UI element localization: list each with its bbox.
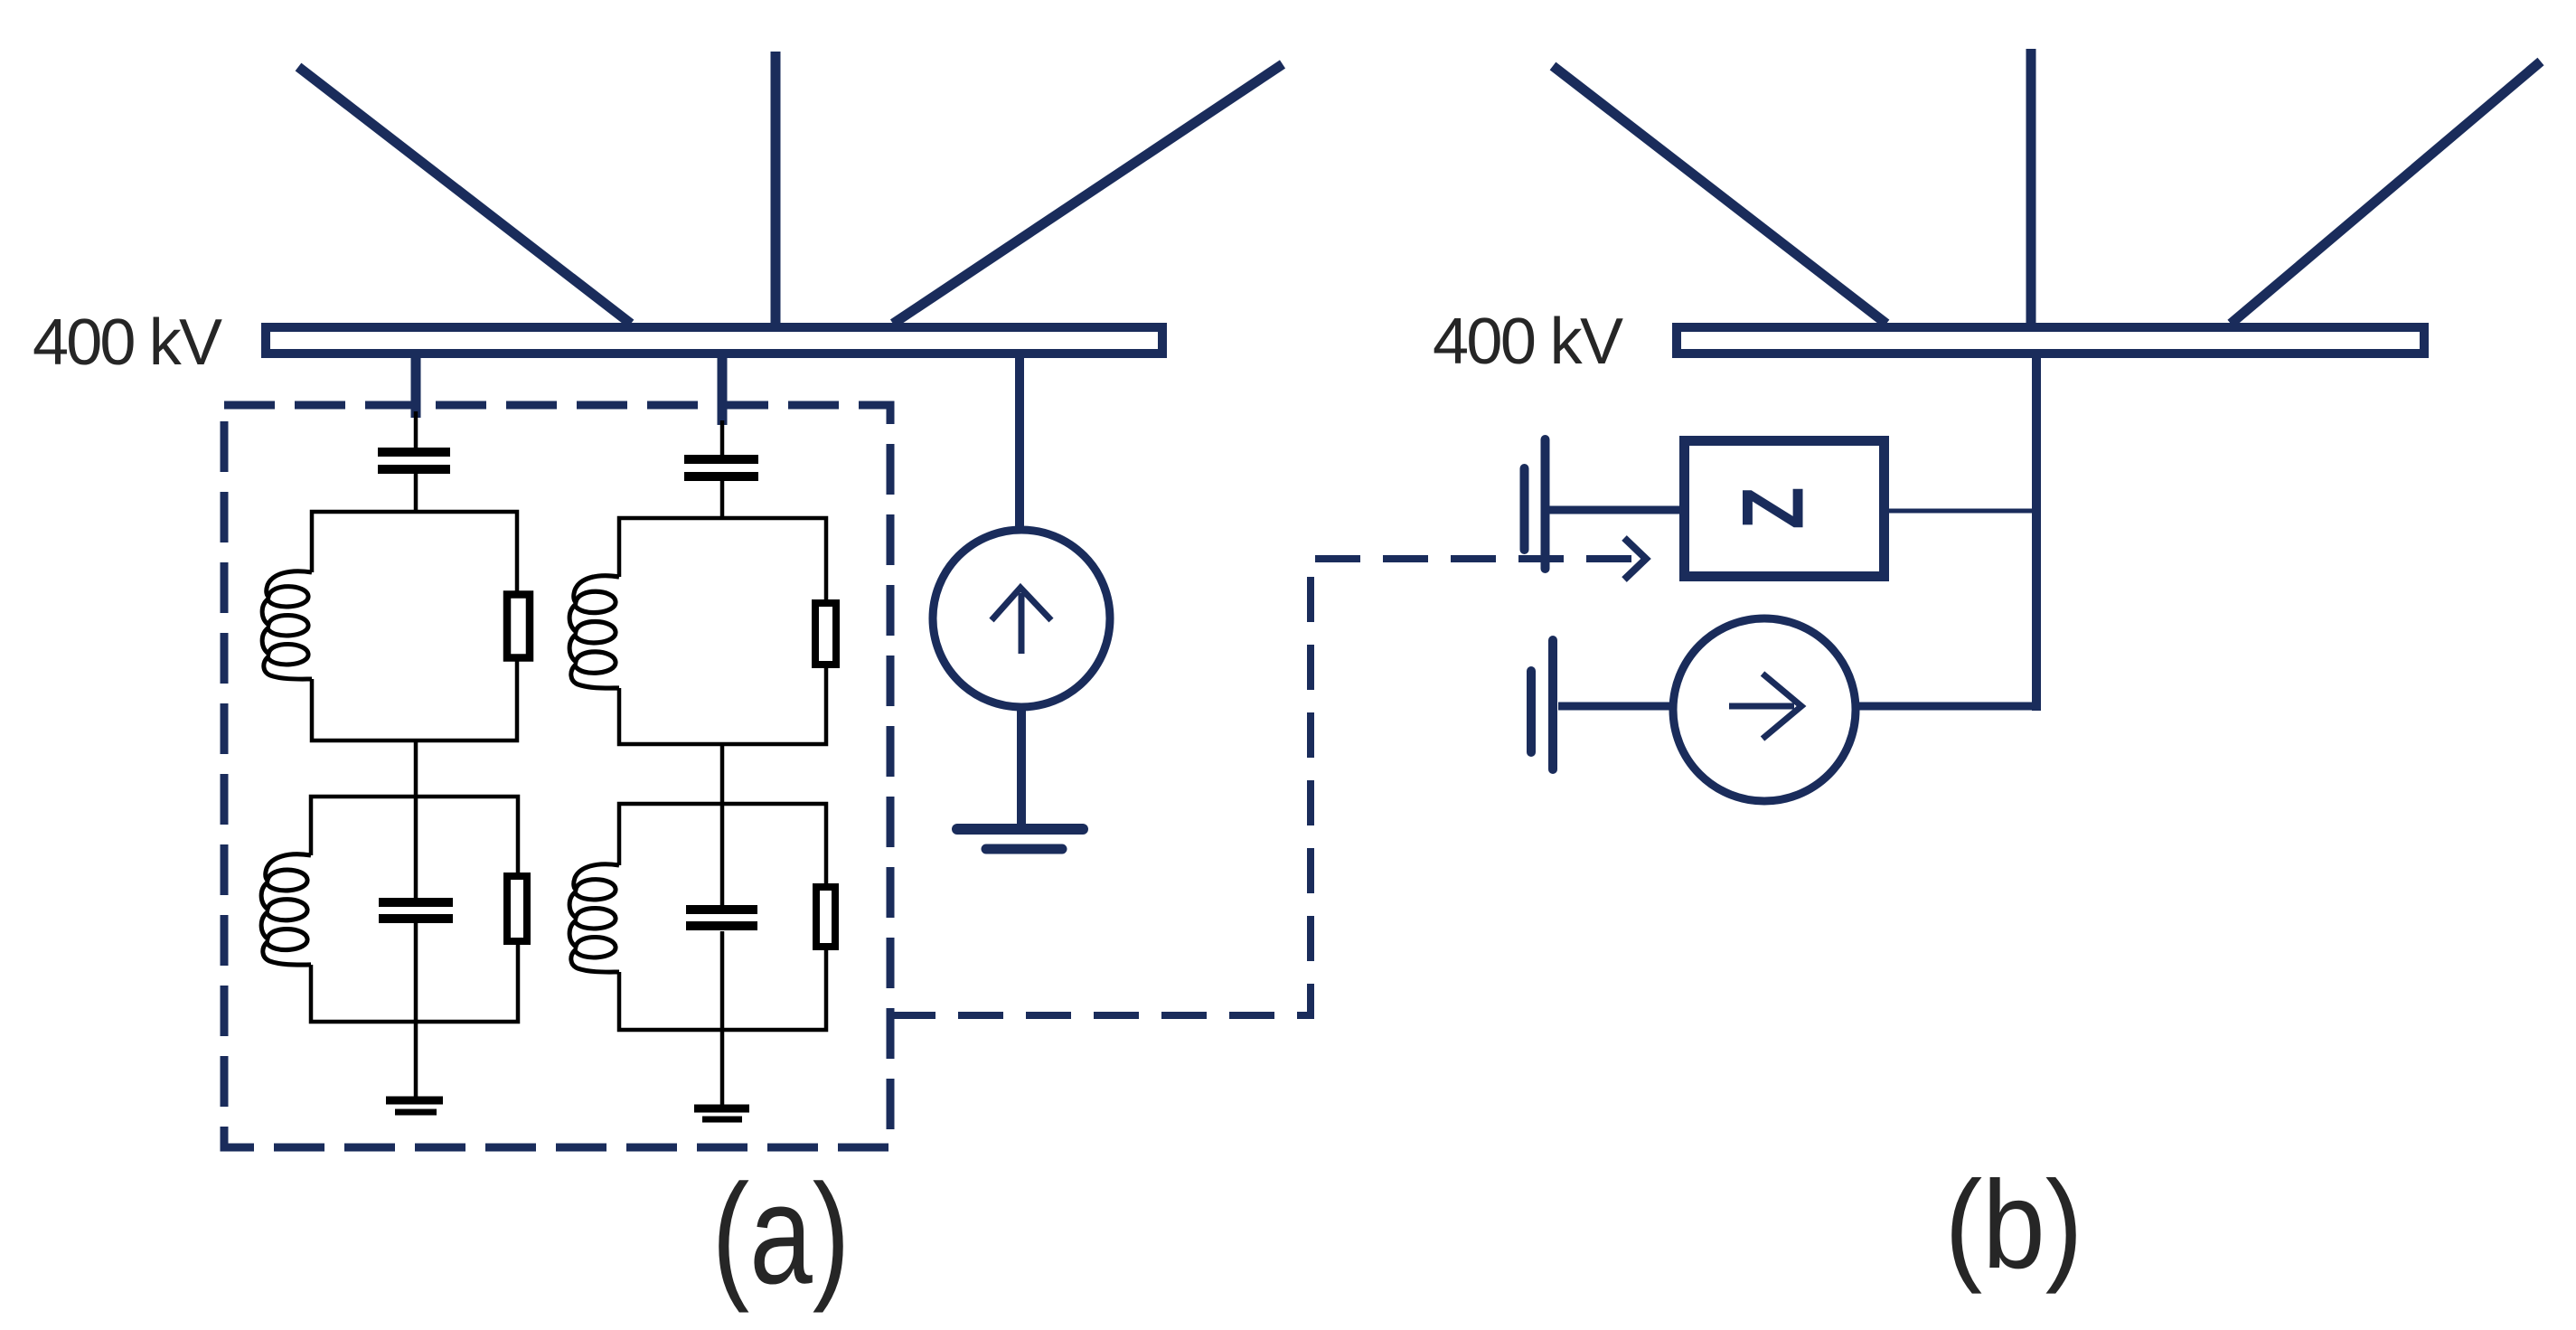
- svg-text:400 kV: 400 kV: [33, 307, 222, 379]
- svg-text:(b): (b): [1945, 1155, 2083, 1295]
- svg-text:400 kV: 400 kV: [1433, 306, 1623, 378]
- svg-text:Z: Z: [1725, 487, 1821, 530]
- svg-text:(a): (a): [712, 1155, 851, 1314]
